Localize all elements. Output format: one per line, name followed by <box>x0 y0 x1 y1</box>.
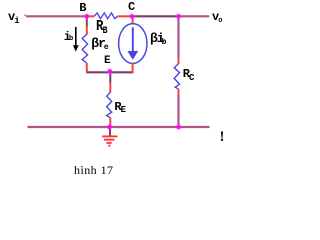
wire: red stub RB zigzag to node C <box>118 15 132 17</box>
wire: red stub down to RE zigzag <box>109 83 111 92</box>
node junction dot at ground <box>107 125 111 129</box>
node E junction dot <box>108 69 112 73</box>
wire: red stub node C down to current source <box>132 16 134 24</box>
label vi <box>8 10 21 24</box>
wire: red stub bre to E corner <box>86 63 88 72</box>
label ib <box>64 30 75 44</box>
label vo <box>212 10 223 24</box>
node halos (soft glow under junction dots) <box>84 13 182 130</box>
node C junction dot <box>130 14 134 18</box>
wire: bottom rail (mauve) <box>28 126 210 128</box>
resistor RE (vertical zigzag) <box>107 92 112 118</box>
resistor RB (horizontal zigzag) <box>94 13 118 19</box>
label RC <box>183 67 196 81</box>
wire: E horizontal rail (dark purple) <box>86 71 133 73</box>
caption hinh 17 <box>74 163 113 178</box>
label RE <box>114 100 127 114</box>
label bre <box>91 36 109 51</box>
wire: input vi to node B (top-left rail) <box>26 15 87 17</box>
wire: right branch vertical upper (mauve) <box>177 16 179 58</box>
stray exclamation mark <box>220 129 225 146</box>
wire: red stub to RC zigzag <box>178 59 180 65</box>
node junction dot top right (RC top) <box>176 14 180 18</box>
current source U1 (ellipse) <box>119 24 147 64</box>
stray red fleck at vi wire start <box>24 14 26 16</box>
current arrow ib (black) <box>75 27 77 47</box>
wire: vertical below node B (dark upper part) <box>86 16 88 26</box>
current source arrow (downward) <box>132 27 134 52</box>
wire: node C to right junction (dark purple) <box>132 15 179 17</box>
resistor RC (vertical zigzag) <box>174 64 179 89</box>
label RB <box>96 18 108 35</box>
node B junction dot <box>85 14 89 18</box>
label C <box>128 0 135 14</box>
node junction dot bottom right (RC bottom) <box>176 125 180 129</box>
wire: red stub down to bre zigzag <box>86 26 88 35</box>
label E <box>104 55 111 67</box>
wire: red stub RE zigzag to bottom rail <box>109 118 111 127</box>
wire: red stub RC zigzag bottom <box>178 89 180 95</box>
wire: red stub current source bottom to E rail <box>132 63 134 73</box>
wire: right branch vertical lower (mauve) <box>177 95 179 128</box>
label B <box>79 1 86 15</box>
resistor bre (vertical zigzag) <box>82 35 87 63</box>
wire: right junction to vo terminal <box>179 15 210 17</box>
label bib <box>150 31 168 46</box>
ground symbol <box>102 136 118 143</box>
wire: ground stem (dark purple) <box>109 127 111 136</box>
wire: red stub B to RB zigzag <box>87 15 95 17</box>
wire: dark stub E junction down <box>109 72 111 83</box>
